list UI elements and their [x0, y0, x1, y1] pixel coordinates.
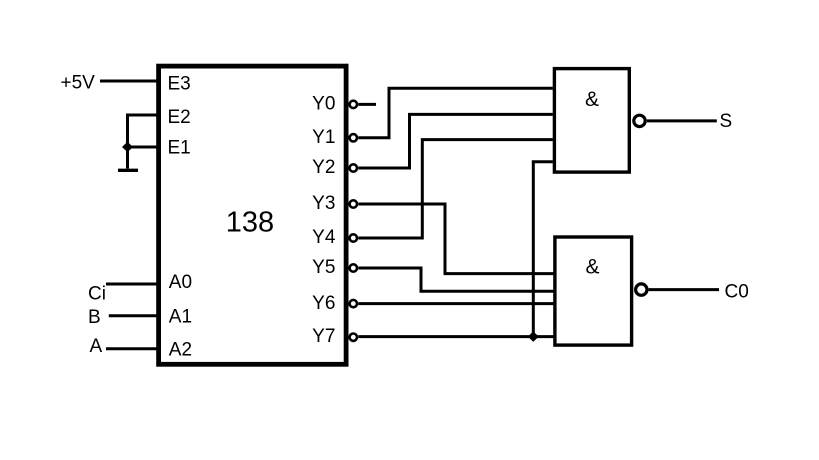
svg-text:Y3: Y3 [312, 193, 335, 214]
wire Y7 riser to gate U2 input 4 [533, 162, 553, 337]
svg-text:A1: A1 [169, 307, 192, 328]
pin bubble Y2 [350, 164, 357, 171]
svg-text:138: 138 [226, 207, 274, 239]
wire gate U3 output to C0 [649, 288, 719, 291]
gate U2 output bubble [634, 115, 645, 126]
wire gate U2 output to S [647, 119, 717, 122]
wire Y4 to gate U2 input 3 [358, 140, 553, 238]
wire Y5 to gate U3 input 2 [358, 268, 554, 291]
svg-text:Y2: Y2 [312, 157, 335, 178]
wire Y1 to gate U2 input 1 [358, 88, 553, 138]
svg-text:Y6: Y6 [312, 293, 335, 314]
wire pin E2 tie [128, 115, 159, 169]
pin bubble Y7 [350, 334, 357, 341]
nand gate U2 body [554, 69, 629, 173]
pin bubble Y4 [350, 234, 357, 241]
pin bubble Y1 [350, 134, 357, 141]
wire B to pin A1 [109, 314, 158, 317]
svg-text:C0: C0 [725, 282, 749, 303]
wire Ci to pin A0 [106, 283, 158, 286]
svg-text:Y4: Y4 [312, 227, 336, 248]
pin bubble Y0 [350, 101, 357, 108]
wire A to pin A2 [106, 347, 158, 350]
wire Y0 stub [358, 103, 376, 106]
svg-text:Y1: Y1 [312, 127, 335, 148]
svg-text:Y0: Y0 [312, 94, 335, 115]
wire Y2 to gate U2 input 2 [358, 114, 553, 168]
junction Y7 branch [528, 331, 539, 341]
svg-text:E3: E3 [168, 74, 191, 95]
junction E1/E2 tie [122, 142, 133, 152]
svg-text:Y7: Y7 [312, 326, 335, 347]
svg-text:S: S [720, 111, 733, 132]
gate U3 output bubble [636, 284, 647, 295]
wire +5V to pin E3 [100, 80, 158, 83]
svg-text:E2: E2 [168, 107, 191, 128]
svg-text:Y5: Y5 [312, 257, 335, 278]
wire Y6 to gate U3 input 3 [358, 302, 554, 305]
svg-text:A2: A2 [169, 340, 192, 361]
svg-text:+5V: +5V [61, 73, 96, 94]
wire pin E1 tie [128, 146, 159, 149]
svg-text:Ci: Ci [88, 284, 106, 305]
svg-text:E1: E1 [168, 138, 191, 159]
svg-text:&: & [585, 88, 599, 111]
svg-text:A: A [90, 336, 103, 357]
wire Y3 to gate U3 input 1 [358, 204, 554, 274]
ground [118, 169, 138, 172]
nand gate U3 body [555, 237, 632, 345]
wire Y7 to gate U3 input 4 [358, 335, 554, 338]
decoder U1 138 body [159, 66, 347, 364]
svg-text:&: & [585, 256, 599, 279]
pin bubble Y6 [350, 300, 357, 307]
pin bubble Y3 [350, 200, 357, 207]
svg-text:A0: A0 [169, 272, 192, 293]
pin bubble Y5 [350, 264, 357, 271]
svg-text:B: B [88, 307, 101, 328]
